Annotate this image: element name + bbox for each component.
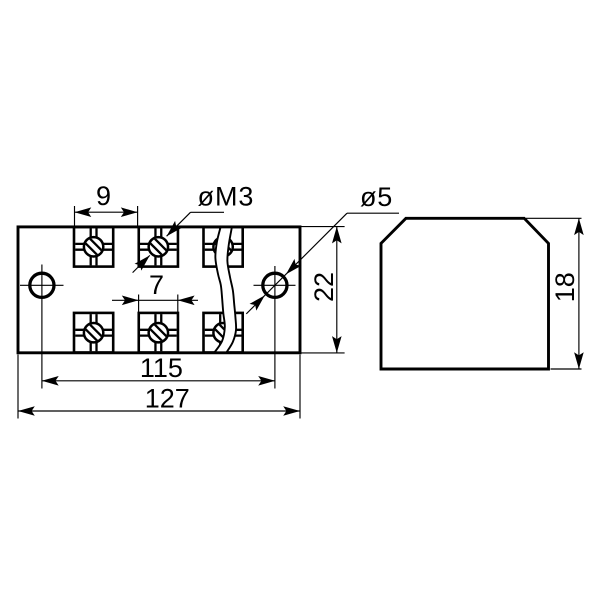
side view body outline <box>381 218 549 369</box>
terminal screw cell T4 <box>74 313 113 353</box>
terminal screw cell T5 <box>139 313 178 353</box>
svg-text:127: 127 <box>145 383 190 413</box>
svg-text:18: 18 <box>550 272 580 302</box>
svg-text:9: 9 <box>96 181 111 211</box>
dimension 18 <box>526 218 584 369</box>
leader o5 <box>246 213 399 314</box>
leader oM3 <box>133 212 224 272</box>
svg-text:7: 7 <box>149 270 164 300</box>
dimension 9 <box>75 206 138 227</box>
dimension 22 <box>301 227 345 353</box>
terminal screw cell T6 <box>204 313 243 353</box>
svg-text:ø5: ø5 <box>360 182 393 212</box>
break line (shortened part) <box>214 227 236 353</box>
dimension 7 <box>112 295 198 313</box>
terminal screw cell T2 <box>139 227 178 267</box>
terminal screw cell T3 <box>204 227 243 267</box>
dimension 127 <box>18 355 300 419</box>
terminal screw cell T1 <box>74 227 113 267</box>
mounting hole right (o5) <box>254 266 296 389</box>
svg-text:115: 115 <box>140 353 183 383</box>
mounting hole left (o5) <box>20 265 64 389</box>
dimension 115 <box>42 376 275 386</box>
svg-text:øM3: øM3 <box>198 182 255 212</box>
front view body outline <box>18 227 300 353</box>
svg-text:22: 22 <box>309 272 339 302</box>
